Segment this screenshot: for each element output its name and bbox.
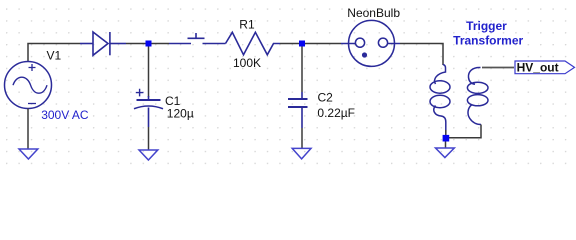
diode D (80, 32, 126, 55)
wire secondary bottom to junction3 (449, 125, 481, 138)
wire R1 to junction2 (280, 43, 299, 45)
wire junction3 to ground (445, 142, 447, 149)
transformer secondary coil L2 (467, 67, 488, 124)
svg-text:NeonBulb: NeonBulb (347, 6, 400, 20)
transformer primary coil L1 (430, 65, 450, 131)
ground under transformer (436, 148, 455, 158)
svg-text:HV_out: HV_out (517, 61, 559, 75)
svg-text:C1: C1 (165, 94, 181, 108)
net label HV_out (515, 61, 575, 74)
wire C1 to ground (148, 127, 150, 150)
junction node 3 (443, 135, 450, 142)
svg-text:Transformer: Transformer (453, 33, 523, 47)
wire junction1 to switch (152, 43, 170, 45)
wire V1 top to diode (28, 44, 80, 63)
svg-text:R1: R1 (239, 18, 255, 32)
junction node 1 (146, 41, 152, 47)
switch S1 (169, 33, 226, 44)
wire neon bulb to transformer primary (400, 44, 443, 66)
wire junction1 down to C1 (148, 47, 150, 98)
svg-text:120µ: 120µ (167, 107, 194, 121)
svg-text:0.22µF: 0.22µF (317, 106, 355, 120)
ground under C2 (292, 148, 311, 159)
svg-text:V1: V1 (47, 48, 62, 62)
source V1 (5, 62, 52, 109)
wire C2 to ground (301, 128, 303, 148)
junction node 2 (299, 41, 305, 47)
capacitor C2 (288, 92, 308, 128)
resistor R1 (226, 32, 281, 55)
ground under V1 (19, 149, 38, 159)
wire diode to junction1 (126, 43, 146, 45)
wire junction2 to neon bulb (305, 43, 341, 45)
capacitor C1 (134, 89, 163, 127)
svg-text:100K: 100K (233, 56, 261, 70)
wire V1 bottom (27, 109, 29, 149)
svg-text:C2: C2 (318, 90, 334, 104)
svg-text:Trigger: Trigger (466, 19, 507, 33)
svg-text:300V AC: 300V AC (41, 108, 89, 122)
wire secondary top to HV_out (482, 67, 514, 69)
wire junction2 down to C2 (301, 47, 303, 93)
ground under C1 (139, 150, 158, 160)
wire primary bottom to junction3 (445, 130, 447, 135)
neon bulb U1 (341, 20, 400, 66)
